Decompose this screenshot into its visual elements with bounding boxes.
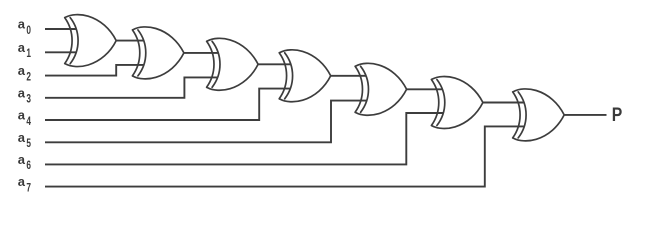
svg-text:a: a <box>18 174 26 189</box>
xor gate G7 <box>513 89 565 141</box>
svg-text:1: 1 <box>26 48 31 60</box>
wire XOR2 output to XOR3 upper pin <box>184 52 218 54</box>
xor gate G4 <box>279 50 331 102</box>
svg-text:5: 5 <box>26 138 31 150</box>
label a6 <box>18 152 31 172</box>
svg-text:a: a <box>18 63 26 78</box>
wire XOR5 output to XOR6 upper pin <box>407 88 444 90</box>
label a4 <box>18 108 32 128</box>
svg-text:a: a <box>18 152 26 167</box>
wire a6 input with jog up to XOR6 lower pin <box>45 113 443 164</box>
svg-text:6: 6 <box>26 160 31 172</box>
wire a5 input with jog up to XOR5 lower pin <box>45 101 367 143</box>
svg-text:P: P <box>612 104 623 126</box>
xor gate G5 <box>355 63 407 115</box>
xor gate G3 <box>207 38 259 90</box>
svg-text:a: a <box>18 40 26 55</box>
label a3 <box>18 85 31 105</box>
wire a3 input with jog up to XOR3 lower pin <box>45 77 218 97</box>
label a7 <box>18 174 31 194</box>
wire XOR3 output to XOR4 upper pin <box>258 63 291 65</box>
svg-text:a: a <box>18 108 26 123</box>
wire XOR6 output to XOR7 upper pin <box>483 102 524 104</box>
label a5 <box>18 130 32 150</box>
svg-text:a: a <box>18 85 26 100</box>
xor gate G6 <box>431 77 483 129</box>
wire P output <box>564 114 607 116</box>
xor gate G1 <box>65 15 117 67</box>
wire a4 input with jog up to XOR4 lower pin <box>45 89 291 120</box>
wire a2 input with jog up to XOR2 lower pin <box>45 65 144 76</box>
xor gate G2 <box>132 27 184 79</box>
wire XOR1 output to XOR2 upper pin <box>116 40 144 42</box>
svg-text:2: 2 <box>26 71 31 83</box>
svg-text:7: 7 <box>26 182 31 194</box>
label a2 <box>18 63 31 83</box>
wire a7 input with jog up to XOR7 lower pin <box>45 126 524 186</box>
svg-text:3: 3 <box>26 94 31 106</box>
svg-text:0: 0 <box>26 25 31 37</box>
label a0 <box>18 17 31 37</box>
label a1 <box>18 40 32 60</box>
svg-text:a: a <box>18 17 26 32</box>
wire a1 input <box>45 51 76 53</box>
wire a0 input <box>45 28 76 30</box>
svg-text:a: a <box>18 130 26 145</box>
wire XOR4 output to XOR5 upper pin <box>331 75 367 77</box>
svg-text:4: 4 <box>26 116 31 128</box>
